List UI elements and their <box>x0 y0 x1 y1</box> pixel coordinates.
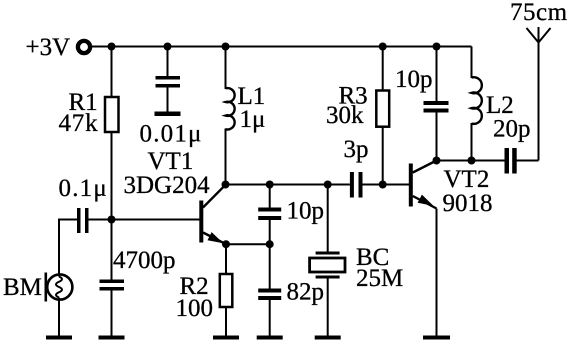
ground BM <box>46 336 72 340</box>
wire crystal to ground <box>327 279 329 336</box>
svg-text:10p: 10p <box>287 198 325 225</box>
resistor R2 <box>176 273 233 322</box>
wire R1 to base node <box>111 132 113 220</box>
wire VT1 emitter rail <box>226 243 270 245</box>
power terminal +3V <box>78 41 90 53</box>
ground 82p <box>257 336 283 340</box>
wire 10p mid to emitter rail <box>269 220 271 244</box>
wire 82p to ground <box>269 300 271 336</box>
svg-text:75cm: 75cm <box>510 0 567 26</box>
wire 20p to antenna <box>516 160 538 162</box>
inductor L1 <box>226 83 266 133</box>
svg-text:30k: 30k <box>326 102 364 129</box>
node dot R1/base <box>108 216 116 224</box>
wire R2 branch upper <box>225 244 227 274</box>
node dot VT2 collector <box>433 157 441 165</box>
wire top supply rail <box>92 46 472 48</box>
node dot supply/L1 <box>222 43 230 51</box>
ground 4700p <box>99 336 125 340</box>
capacitor 10p tank <box>395 66 449 113</box>
wire C 4700p to ground <box>111 291 113 336</box>
wire 10p top-right lower <box>436 112 438 160</box>
wire BM to ground <box>58 298 60 336</box>
node dot supply/R1 <box>108 43 116 51</box>
node dot supply/0.01u <box>164 43 172 51</box>
wire antenna feed vertical <box>538 43 540 161</box>
crystal BC 25M <box>310 244 404 292</box>
wire 10p top-right branch upper <box>436 47 438 102</box>
svg-text:100: 100 <box>176 295 214 322</box>
wire L2 branch upper <box>471 47 473 79</box>
capacitor 0.01u bypass <box>140 76 203 148</box>
resistor R1 <box>59 89 119 137</box>
wire 0.01u cap to ground <box>167 88 169 112</box>
node dot L2 bottom <box>468 157 476 165</box>
svg-text:0.1μ: 0.1μ <box>59 175 108 202</box>
wire VT1 base wire <box>89 219 200 221</box>
node dot VT1 collector <box>222 181 230 189</box>
svg-text:47k: 47k <box>59 110 99 137</box>
capacitor 20p output <box>505 148 517 174</box>
svg-text:10p: 10p <box>395 66 433 93</box>
wire L1 to VT1 collector node <box>225 129 227 185</box>
capacitor 10p feedback <box>258 198 324 225</box>
wire L2 lower <box>471 123 473 161</box>
svg-text:0.01μ: 0.01μ <box>140 121 203 148</box>
capacitor 82p <box>258 279 324 306</box>
wire VT2 emitter to ground <box>436 209 438 336</box>
svg-text:BM: BM <box>3 274 42 301</box>
wire base node to C 4700p <box>111 220 113 280</box>
resistor R3 <box>326 83 389 130</box>
transistor VT1 <box>124 148 227 244</box>
wire 82p branch upper <box>269 244 271 288</box>
wire VT2 collector rail <box>437 160 505 162</box>
svg-text:82p: 82p <box>287 279 325 306</box>
ground R2 <box>213 336 239 340</box>
wire R2 to ground <box>225 307 227 336</box>
svg-text:VT2: VT2 <box>444 166 490 193</box>
node dot supply/10p <box>433 43 441 51</box>
wire 0.01u cap branch upper <box>167 47 169 77</box>
svg-text:VT1: VT1 <box>148 148 194 175</box>
svg-text:3p: 3p <box>344 136 369 163</box>
node dot 10p/82p <box>266 240 274 248</box>
ground VT2 emitter <box>423 336 450 340</box>
wire corner to 0.1u cap <box>58 219 77 221</box>
node dot VT1 emitter <box>222 240 230 248</box>
svg-text:25M: 25M <box>356 265 403 292</box>
transistor VT2 <box>409 161 493 218</box>
inductor L2 <box>472 77 531 142</box>
svg-text:3DG204: 3DG204 <box>124 172 211 199</box>
ground crystal <box>315 336 341 340</box>
ground local 0.01u <box>155 112 181 117</box>
wire collector rail left of 3p <box>226 184 350 186</box>
svg-text:+3V: +3V <box>26 34 71 61</box>
wire 10p mid branch upper <box>269 185 271 208</box>
node dot crystal top <box>324 181 332 189</box>
microphone BM <box>3 273 72 302</box>
wire collector rail right of 3p to VT2 base <box>363 184 410 186</box>
wire crystal branch upper <box>327 185 329 252</box>
antenna 75cm <box>510 0 567 43</box>
node dot R3 bottom <box>379 181 387 189</box>
wire L1 branch upper <box>225 47 227 90</box>
node dot 10p mid top <box>266 181 274 189</box>
svg-text:20p: 20p <box>493 116 531 143</box>
node dot supply/R3 <box>379 43 387 51</box>
wire BM branch upper <box>58 220 60 277</box>
capacitor 0.1u input <box>59 175 108 233</box>
capacitor 4700p <box>100 247 176 291</box>
svg-text:1μ: 1μ <box>240 106 266 133</box>
wire R1 branch vertical upper <box>111 47 113 98</box>
wire R3 branch upper <box>382 47 384 91</box>
svg-text:4700p: 4700p <box>113 247 176 274</box>
svg-text:9018: 9018 <box>443 190 493 217</box>
wire R3 to collector rail <box>382 127 384 185</box>
capacitor 3p coupling <box>344 136 369 198</box>
